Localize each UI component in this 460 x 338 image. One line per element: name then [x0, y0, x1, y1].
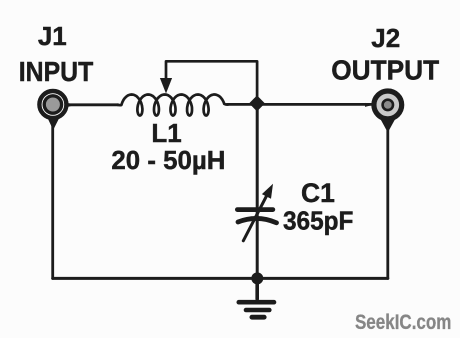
- svg-text:J2: J2: [371, 23, 400, 53]
- svg-text:20 - 50µH: 20 - 50µH: [111, 145, 225, 175]
- svg-text:J1: J1: [38, 21, 67, 51]
- svg-text:SeekIC.com: SeekIC.com: [355, 310, 452, 334]
- svg-text:365pF: 365pF: [283, 205, 354, 235]
- svg-text:C1: C1: [301, 178, 335, 208]
- svg-text:L1: L1: [151, 118, 181, 148]
- svg-text:INPUT: INPUT: [19, 56, 94, 87]
- svg-text:OUTPUT: OUTPUT: [331, 54, 439, 85]
